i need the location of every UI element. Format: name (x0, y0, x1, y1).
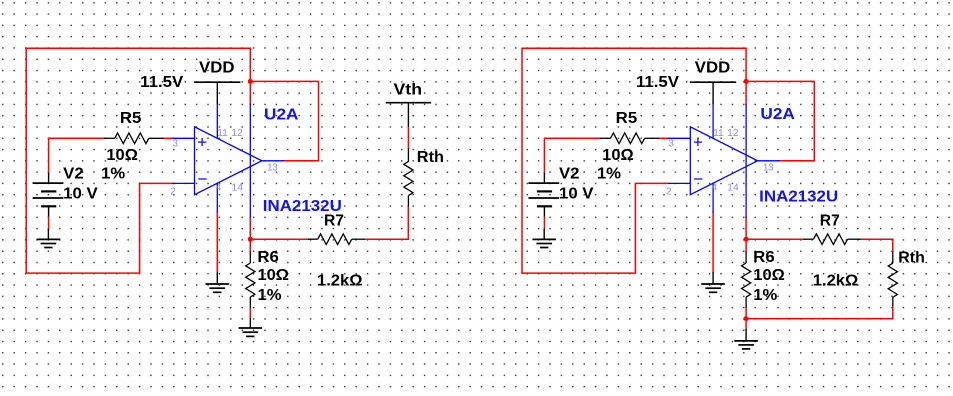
node Vth terminal (386, 103, 431, 127)
battery V2 (33, 173, 64, 217)
wire R5 to op-amp + input (163, 137, 173, 139)
svg-text:11: 11 (217, 128, 228, 139)
junction node A right (744, 237, 749, 242)
wire VDD node down right (745, 81, 747, 104)
wire output loop to VDD node (250, 81, 318, 160)
svg-text:V2: V2 (63, 166, 83, 183)
svg-text:12: 12 (231, 128, 243, 139)
wire R7 to Rth right (860, 239, 892, 251)
svg-text:4: 4 (216, 182, 222, 193)
svg-text:1%: 1% (101, 166, 125, 183)
wire feedback to inverting input (26, 183, 173, 273)
VDD power symbol (194, 82, 240, 104)
wire top (VDD loop) right (522, 48, 746, 273)
svg-text:4: 4 (711, 182, 717, 193)
wire feedback to inverting input right (522, 183, 669, 273)
wire node B to ground (745, 319, 747, 329)
svg-text:R5: R5 (616, 110, 638, 127)
svg-text:1.2kΩ: 1.2kΩ (813, 273, 859, 290)
resistor R6 (246, 252, 255, 308)
svg-text:14: 14 (727, 182, 739, 193)
svg-text:Vth: Vth (394, 82, 423, 99)
op-amp U2A (173, 104, 283, 217)
svg-text:V2: V2 (559, 166, 580, 183)
ground (op-amp pin4) right (701, 272, 725, 292)
wire node A to R7 right (746, 238, 804, 240)
svg-text:2: 2 (170, 187, 176, 198)
wire battery negative to ground (48, 216, 50, 228)
svg-text:1%: 1% (597, 166, 621, 183)
svg-text:3: 3 (668, 139, 674, 150)
wire node A to R6 (249, 239, 251, 251)
resistor R7 (308, 234, 365, 245)
svg-text:VDD: VDD (695, 59, 731, 76)
wire battery negative to ground right (543, 216, 545, 228)
wire output loop to VDD node right (746, 81, 814, 160)
wire battery to R5 (49, 138, 104, 172)
wire pin4 to ground (216, 212, 218, 272)
svg-text:10Ω: 10Ω (258, 267, 290, 284)
resistor R7 right (804, 234, 861, 245)
VDD power symbol right (690, 82, 736, 104)
op-amp minus sign (198, 178, 206, 180)
wire Rth bottom to node B (746, 306, 893, 319)
svg-text:INA2132U: INA2132U (263, 198, 342, 215)
resistor Rth (left) (404, 148, 413, 206)
svg-text:10Ω: 10Ω (753, 267, 785, 284)
wire Vth stem red segment (407, 127, 409, 149)
wire R5 to op-amp + input right (659, 137, 669, 139)
ground (battery) (37, 229, 61, 248)
svg-text:U2A: U2A (760, 106, 795, 123)
svg-text:1.2kΩ: 1.2kΩ (317, 273, 363, 290)
ground (R6) (239, 318, 263, 337)
svg-text:13: 13 (267, 163, 278, 174)
junction node VDD right (744, 79, 749, 84)
svg-text:14: 14 (231, 182, 243, 193)
wire VDD node down (249, 81, 251, 104)
junction node B right (744, 316, 749, 321)
junction node VDD (248, 79, 253, 84)
svg-text:10 V: 10 V (559, 185, 594, 202)
svg-text:R6: R6 (753, 249, 775, 266)
wire pin12 to node A right (745, 217, 747, 239)
wire node A to R7 (250, 238, 308, 240)
wire R6 bottom to node B (745, 308, 747, 319)
svg-text:U2A: U2A (264, 107, 299, 124)
svg-text:12: 12 (727, 128, 739, 139)
resistor R5 (104, 133, 163, 144)
wire R7 to Rth (365, 206, 409, 239)
svg-text:Rth: Rth (898, 249, 925, 266)
junction node A (248, 237, 253, 242)
svg-text:1%: 1% (753, 287, 777, 304)
svg-text:10Ω: 10Ω (106, 147, 138, 164)
wire pin4 to ground right (712, 212, 714, 272)
wire top (VDD loop) (26, 48, 250, 273)
svg-text:Rth: Rth (417, 149, 444, 166)
op-amp plus sign (198, 138, 206, 146)
op-amp U2A right (669, 104, 779, 217)
svg-text:10 V: 10 V (63, 185, 98, 202)
battery V2 right (528, 173, 559, 217)
svg-text:10Ω: 10Ω (602, 147, 634, 164)
svg-text:R7: R7 (820, 213, 840, 230)
resistor R5 right (600, 133, 659, 144)
svg-text:1%: 1% (258, 287, 282, 304)
svg-text:2: 2 (666, 187, 672, 198)
wire node A to R6 right (745, 239, 747, 251)
resistor Rth (right) (888, 251, 897, 305)
svg-text:R6: R6 (257, 249, 279, 266)
svg-text:11.5V: 11.5V (636, 74, 680, 91)
resistor R6 right (742, 252, 751, 308)
op-amp plus sign right (694, 138, 702, 146)
wire R6 bottom to ground (249, 308, 251, 318)
ground (battery) right (532, 229, 556, 248)
ground (op-amp pin4) (206, 272, 230, 292)
wire pin12 to node A (249, 217, 251, 239)
svg-text:11: 11 (713, 128, 724, 139)
svg-text:11.5V: 11.5V (140, 74, 184, 91)
svg-text:INA2132U: INA2132U (759, 188, 838, 205)
svg-text:13: 13 (763, 163, 774, 174)
svg-text:3: 3 (173, 139, 179, 150)
ground (node B) right (734, 329, 758, 349)
svg-text:VDD: VDD (199, 59, 235, 76)
wire battery to R5 right (544, 138, 599, 172)
svg-text:R5: R5 (120, 110, 142, 127)
op-amp minus sign right (694, 178, 702, 180)
